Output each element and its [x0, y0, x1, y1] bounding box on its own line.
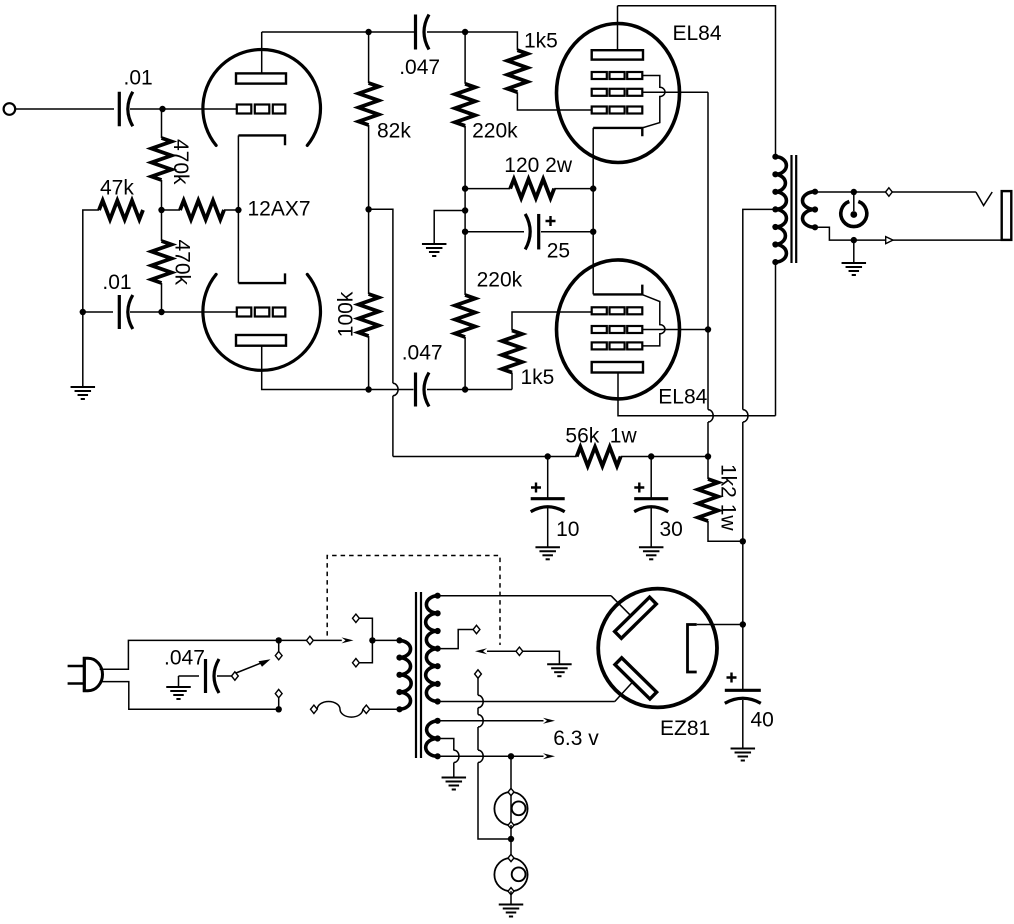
resistor R4 470k lower	[152, 241, 172, 283]
V2 plate	[592, 50, 643, 59]
tube V4 EZ81 envelope	[598, 589, 717, 708]
connector diamond HV ground	[516, 647, 523, 655]
svg-text:EZ81: EZ81	[660, 717, 710, 740]
label C7 30	[660, 518, 683, 541]
capacitor C8 .047 mains	[206, 659, 220, 693]
node cathode junction dot	[235, 207, 241, 213]
wire R3 to cathode node	[224, 209, 238, 211]
ground GND4	[639, 547, 664, 559]
wire heater bottom lead	[438, 755, 544, 757]
V1B plate wire down	[262, 346, 414, 390]
node input terminal	[4, 103, 16, 115]
svg-text:.01: .01	[124, 67, 153, 90]
wire V1A plate to top rail	[262, 31, 369, 33]
node B+rail-1k2 junction dot	[740, 538, 746, 544]
wire 82k bottom to node D	[368, 125, 370, 209]
wire node E to 1k5 bend	[465, 32, 517, 50]
V1A plate	[236, 73, 286, 83]
label C9 40	[751, 708, 774, 731]
V1A grid boxes	[237, 105, 285, 114]
wire B+ rail lower	[742, 541, 744, 690]
resistor R1 47k	[99, 201, 143, 220]
connector diamond mains top	[307, 636, 314, 644]
V1A cathode	[238, 135, 285, 145]
svg-text:6.3 v: 6.3 v	[553, 727, 599, 750]
wire C4 to node F	[427, 389, 465, 391]
connector triangle speaker bottom	[886, 237, 893, 244]
label C2 .01	[102, 271, 131, 294]
wire PI rail to 56k row	[393, 456, 577, 458]
wire 1k5-lower top to grid	[512, 312, 592, 331]
label C5 25	[547, 239, 570, 262]
speaker jack tip spring	[976, 192, 992, 206]
pilot lamp LP1	[494, 788, 527, 828]
svg-text:1w: 1w	[610, 425, 638, 448]
node speaker-top junction dot	[851, 189, 857, 195]
connector diamond HV center tap	[473, 625, 480, 633]
label C4 .047	[402, 342, 443, 365]
node 100k-bottom junction dot	[365, 386, 371, 392]
label C8 .047	[164, 647, 205, 670]
connector diamond fuse left	[311, 705, 318, 713]
resistor R5 82k	[359, 83, 379, 125]
wire R2 to node B	[161, 180, 163, 210]
svg-text:EL84: EL84	[658, 386, 707, 409]
phone plug symbol	[841, 192, 867, 227]
resistor R2 470k upper	[152, 138, 172, 180]
label R8 1k5	[524, 30, 558, 53]
node C7-top junction dot	[648, 453, 654, 459]
node screen-rail-56k junction dot	[705, 453, 711, 459]
transformer T2 heater winding	[426, 718, 441, 760]
svg-text:220k: 220k	[472, 120, 518, 143]
wire 1k5-upper to grid	[517, 92, 591, 110]
wire B+ top rail	[618, 6, 776, 157]
arrow 6.3v top	[543, 718, 555, 724]
node D junction dot	[365, 206, 371, 212]
wire secondary bottom	[815, 227, 854, 240]
V1B cathode wire	[237, 210, 239, 283]
arrow to voltage selector	[342, 637, 354, 643]
pilot lamp LP2	[494, 854, 527, 894]
svg-text:1k5: 1k5	[524, 30, 558, 53]
mains plug prongs	[68, 666, 84, 684]
svg-text:220k: 220k	[477, 269, 523, 292]
svg-text:EL84: EL84	[673, 22, 722, 45]
wire jog hop over lower rail	[393, 383, 398, 395]
wire screen rail hop over plate wire	[708, 410, 713, 422]
tube V3 EL84 envelope	[557, 260, 680, 399]
resistor R12 56k 1w	[577, 447, 621, 466]
node C junction dot	[158, 309, 164, 315]
wire C1 to node A	[130, 108, 237, 110]
wire 1k5-lower bottom	[511, 373, 513, 390]
wire C8 to pivot	[217, 675, 232, 677]
tube V1A envelope arc	[203, 49, 321, 145]
wire 220k-upper bottom rail	[464, 126, 466, 295]
fuse	[317, 701, 363, 717]
wire C6 top	[547, 457, 549, 499]
V3 grid row g2	[592, 326, 643, 333]
wire speaker bottom to jack	[854, 239, 1002, 241]
wire lamp feed mid1	[477, 708, 479, 715]
wire HV top to EZ81 plate	[438, 596, 631, 616]
wire 220k-upper top	[464, 32, 466, 84]
node B+rail-cathode junction dot	[740, 621, 746, 627]
resistor R3 1k2	[180, 201, 224, 220]
V3 cathode	[593, 285, 642, 295]
svg-text:.01: .01	[102, 271, 131, 294]
wire 1k2-1w top	[707, 457, 709, 480]
wire T1 primary bottom	[775, 262, 777, 416]
svg-text:56k: 56k	[565, 425, 599, 448]
V1B grid boxes	[237, 308, 285, 317]
label V3 EL84	[658, 386, 707, 409]
wire C6 bottom	[547, 508, 549, 547]
wire switch to T2 primary	[372, 639, 399, 641]
capacitor C6 10 electrolytic	[531, 499, 565, 512]
svg-text:25: 25	[547, 239, 570, 262]
wire 220k-lower bottom	[464, 337, 466, 390]
wire secondary top to jack	[854, 191, 976, 193]
wire lamp feed lower	[478, 763, 511, 840]
node heater-lamp junction dot	[508, 753, 514, 759]
wire mains top	[100, 640, 279, 669]
speaker jack body	[1002, 191, 1012, 240]
capacitor C3 .047 upper	[416, 15, 430, 50]
wire heater tap to ground	[453, 763, 455, 778]
capacitor C9 40 electrolytic	[725, 690, 761, 703]
V2 grid row g1	[592, 107, 643, 114]
transformer T1 primary winding	[772, 154, 786, 266]
transformer T1 core	[792, 155, 797, 263]
wire switch upper tap	[359, 618, 372, 640]
node 82k-top junction dot	[365, 29, 371, 35]
connector diamond speaker top	[886, 188, 893, 196]
connector diamond column lower	[275, 689, 282, 697]
V2 screen wire	[643, 91, 708, 93]
tube V2 EL84 envelope	[557, 24, 680, 163]
label V2 EL84	[673, 22, 722, 45]
label R2 470k	[169, 139, 192, 185]
wire C9 bottom	[742, 700, 744, 749]
ground GND5	[842, 263, 867, 275]
V3 screen wire	[643, 329, 708, 331]
label C3 .047	[399, 56, 440, 79]
resistor R7 220k upper	[455, 84, 475, 126]
wire 100k bottom	[368, 336, 370, 390]
node switch junction dot	[369, 637, 375, 643]
node 120-2w-left junction dot	[462, 185, 468, 191]
wire HV center tap	[438, 630, 474, 649]
wire input to C1	[15, 108, 114, 110]
label C6 10	[556, 518, 579, 541]
wire lamp feed upper	[477, 678, 479, 695]
ground GND10	[499, 905, 524, 917]
node A junction dot	[159, 106, 165, 112]
connector diamond switch arm pivot	[232, 672, 239, 680]
resistor R9 120 2w	[510, 179, 554, 198]
label R7 220k	[472, 120, 518, 143]
svg-text:40: 40	[751, 708, 774, 731]
mains plug body	[84, 657, 102, 692]
node lamp junction dot	[508, 836, 514, 842]
label C6 plus	[531, 483, 541, 493]
wire lamp2 to ground	[510, 891, 512, 904]
ground GND8	[547, 664, 572, 676]
wire C5 left	[465, 231, 524, 233]
ground GND1	[71, 387, 96, 399]
resistor R10 220k lower	[455, 295, 475, 337]
label R13 1k2 1w	[717, 464, 740, 531]
wire screen rail to 56k row	[707, 422, 709, 457]
svg-text:470k: 470k	[169, 139, 192, 185]
ground GND3	[535, 547, 560, 559]
V2 g3-cathode bracket	[643, 76, 665, 128]
ground GND2	[422, 244, 447, 256]
wire C5 right	[541, 231, 593, 233]
node speaker-bottom junction dot	[851, 237, 857, 243]
wire C2 right to grid	[130, 311, 237, 313]
ground GND7	[166, 687, 191, 699]
resistor R6 100k	[359, 294, 379, 336]
V3 plate wire down	[618, 373, 776, 416]
wire B+ rail middle	[742, 422, 744, 541]
V2 grid row g3	[592, 72, 643, 79]
node B junction dot	[158, 207, 164, 213]
label C7 plus	[634, 483, 644, 493]
wire switch lower tap	[359, 640, 372, 662]
V4 cathode bracket	[688, 625, 697, 673]
svg-text:1k5: 1k5	[521, 366, 555, 389]
V3 grid row g3	[592, 342, 643, 349]
V3 plate	[592, 362, 643, 373]
wire 100k top	[368, 209, 370, 294]
HV CT ground arrow	[475, 648, 516, 654]
svg-text:470k: 470k	[171, 240, 194, 286]
transformer T2 primary winding	[396, 637, 411, 712]
wire speaker ground leg	[853, 240, 855, 263]
V2 grid row g2	[592, 89, 643, 96]
svg-text:10: 10	[556, 518, 579, 541]
wire heater tap	[438, 739, 454, 751]
wire secondary top	[815, 191, 854, 193]
wire node A down to R2	[161, 109, 163, 138]
wire HV bottom to EZ81 plate	[438, 682, 633, 701]
wire jog down to PI rail	[392, 396, 394, 457]
node E junction dot	[462, 29, 468, 35]
label R4 470k	[171, 240, 194, 286]
node C5-left junction dot	[462, 229, 468, 235]
label V4 EZ81	[660, 717, 710, 740]
capacitor C7 30 electrolytic	[634, 499, 668, 512]
resistor R8 1k5 upper	[507, 50, 527, 92]
wire 56k to screen rail	[621, 456, 708, 458]
svg-text:.047: .047	[402, 342, 443, 365]
label C9 plus	[727, 673, 737, 683]
node mains-bottom junction dot	[276, 706, 282, 712]
V2 plate wire up	[617, 6, 619, 50]
wire C2 left to ground leg	[83, 311, 113, 313]
label C5 plus	[546, 216, 556, 226]
wire C7 bottom	[650, 508, 652, 547]
wire node D jog right-down	[369, 209, 393, 383]
wire ground leg down	[82, 312, 84, 387]
wire lamp feed mid2	[477, 727, 479, 750]
transformer T2 core	[416, 592, 421, 758]
label R11 1k5	[521, 366, 555, 389]
node C6-top junction dot	[545, 453, 551, 459]
wire mains top to switch arrow	[279, 639, 342, 641]
capacitor C5 25 electrolytic	[525, 214, 539, 250]
svg-text:82k: 82k	[377, 120, 411, 143]
wire lamp1 top	[510, 756, 512, 825]
connector diamond column upper	[275, 651, 282, 659]
svg-text:12AX7: 12AX7	[248, 198, 311, 221]
wire node F to 1k5 lower	[465, 389, 512, 391]
transformer T2 HV winding	[426, 593, 441, 705]
label C1 .01	[124, 67, 153, 90]
ground GND9	[442, 778, 467, 790]
capacitor C4 .047 lower	[416, 373, 430, 407]
V4 plate 2	[615, 658, 657, 699]
wire C3 to node E	[427, 31, 465, 33]
label R9 120 2w	[504, 154, 573, 177]
node V3 screen junction dot	[705, 326, 711, 332]
wire screen rail top	[707, 92, 709, 409]
V2 cathode	[593, 128, 642, 136]
label R5 82k	[377, 120, 411, 143]
wire 82k top	[368, 32, 370, 83]
wire lamp feed hop3	[478, 750, 483, 762]
wire mains bottom	[100, 682, 279, 710]
V3 g3-cathode bracket	[643, 295, 665, 346]
wire C7 top	[650, 457, 652, 499]
wire T1 center tap to B+ rail	[743, 209, 776, 409]
V1A plate wire up	[261, 32, 263, 73]
capacitor C2 .01 lower	[119, 295, 133, 329]
node C2-left junction dot	[80, 309, 86, 315]
arrow 6.3v bottom	[543, 753, 555, 759]
wire top rail to C3	[369, 31, 414, 33]
node mains-top junction dot	[276, 637, 282, 643]
switch arm with arrow	[236, 659, 271, 673]
connector diamond fuse right	[363, 705, 370, 713]
V2 cathode wire down	[592, 128, 594, 295]
ground GND6	[731, 749, 756, 761]
connector diamond lamp feed	[475, 670, 482, 678]
wire between lamps	[510, 825, 512, 858]
svg-text:.047: .047	[399, 56, 440, 79]
wire HV ground lead	[523, 651, 560, 664]
wire heater tap hop	[454, 750, 459, 762]
wire C8 left to ground	[179, 676, 200, 687]
wire fuse to T2 primary	[370, 708, 400, 710]
label R12 56k 1w	[565, 425, 637, 448]
wire B+ rail hop over plate wire	[743, 410, 748, 422]
wire ground tap left	[434, 211, 465, 245]
V1B plate	[236, 335, 286, 346]
wire lamp feed hop1	[478, 695, 483, 707]
resistor R13 1k2 1w	[698, 479, 718, 521]
svg-text:.047: .047	[164, 647, 205, 670]
svg-text:120 2w: 120 2w	[504, 154, 573, 177]
node F junction dot	[462, 386, 468, 392]
V1A cathode wire	[237, 135, 239, 210]
wire 120-2w left	[465, 188, 510, 190]
connector diamond switch lower	[353, 659, 360, 667]
label R10 220k	[477, 269, 523, 292]
wire V4 cathode to B+ rail	[697, 624, 743, 626]
V3 grid row g1	[592, 307, 643, 314]
node ground-tap junction dot	[462, 207, 468, 213]
svg-text:47k: 47k	[100, 177, 134, 200]
dashed selector box	[327, 556, 500, 646]
wire node B to R3	[162, 209, 181, 211]
connector diamond switch upper	[353, 614, 360, 622]
svg-text:30: 30	[660, 518, 683, 541]
wire heater top lead	[438, 720, 544, 722]
wire connector column lower	[278, 698, 280, 710]
capacitor C1 .01	[119, 92, 133, 127]
wire connector column upper	[278, 640, 280, 651]
wire R4 top	[161, 210, 163, 241]
transformer T1 secondary winding	[803, 189, 819, 231]
node 120-2w-right junction dot	[590, 185, 596, 191]
resistor R11 1k5 lower	[502, 331, 522, 373]
wire R4 bottom to node C	[161, 283, 163, 312]
label 6.3 v	[553, 727, 599, 750]
svg-text:100k: 100k	[335, 291, 358, 337]
label R1 47k	[100, 177, 134, 200]
label R6 100k	[335, 291, 358, 337]
svg-text:1k2 1w: 1k2 1w	[717, 464, 740, 531]
V4 plate 1	[615, 597, 657, 638]
wire 120-2w right	[554, 188, 593, 190]
wire 1k2-1w bottom to B+ rail	[708, 521, 743, 541]
node C5-right junction dot	[590, 229, 596, 235]
wire lamp feed hop2	[478, 715, 483, 727]
V1B cathode	[238, 273, 285, 283]
label 12AX7	[248, 198, 311, 221]
tube V1B envelope arc	[203, 274, 321, 370]
wire R1 left leg down	[83, 210, 99, 312]
